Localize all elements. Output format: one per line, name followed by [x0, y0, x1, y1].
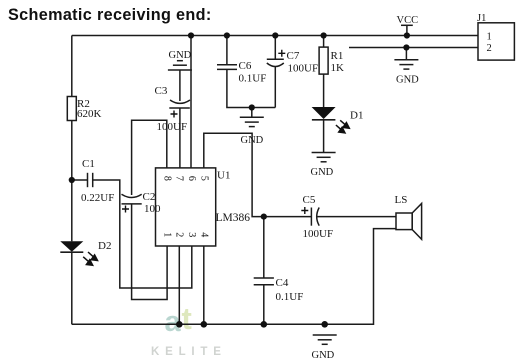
svg-text:C1: C1 — [82, 158, 95, 170]
svg-text:Schematic receiving end:: Schematic receiving end: — [8, 6, 212, 24]
svg-text:R1: R1 — [331, 50, 344, 62]
svg-text:C4: C4 — [276, 277, 289, 289]
svg-text:100: 100 — [144, 203, 161, 215]
svg-text:2: 2 — [174, 232, 185, 237]
svg-text:0.1UF: 0.1UF — [239, 73, 267, 85]
svg-text:D1: D1 — [350, 110, 363, 122]
svg-text:3: 3 — [186, 232, 197, 237]
svg-text:0.1UF: 0.1UF — [276, 291, 304, 303]
svg-text:C2: C2 — [143, 191, 156, 203]
svg-text:100UF: 100UF — [157, 121, 188, 133]
svg-text:KELITE: KELITE — [151, 346, 227, 358]
svg-text:6: 6 — [186, 176, 197, 181]
svg-text:J1: J1 — [477, 13, 486, 24]
svg-text:GND: GND — [312, 350, 335, 361]
svg-text:1: 1 — [487, 32, 492, 43]
svg-text:5: 5 — [198, 176, 209, 181]
svg-text:t: t — [182, 301, 192, 336]
svg-text:VCC: VCC — [397, 15, 419, 26]
svg-text:1K: 1K — [331, 62, 345, 74]
svg-text:620K: 620K — [77, 108, 102, 120]
svg-text:8: 8 — [162, 176, 173, 181]
svg-text:2: 2 — [487, 43, 492, 54]
svg-text:GND: GND — [169, 50, 192, 61]
svg-text:GND: GND — [311, 167, 334, 178]
svg-text:C5: C5 — [303, 194, 316, 206]
svg-text:C6: C6 — [239, 60, 252, 72]
svg-text:D2: D2 — [98, 240, 111, 252]
svg-text:0.22UF: 0.22UF — [81, 192, 114, 204]
svg-text:GND: GND — [241, 135, 264, 146]
svg-text:4: 4 — [198, 232, 209, 237]
svg-text:LS: LS — [395, 194, 408, 206]
svg-text:LM386: LM386 — [216, 212, 251, 224]
svg-text:GND: GND — [396, 75, 419, 86]
svg-text:U1: U1 — [217, 170, 230, 182]
svg-text:C7: C7 — [287, 50, 300, 62]
svg-text:C3: C3 — [155, 85, 168, 97]
svg-text:1: 1 — [162, 232, 173, 237]
svg-text:100UF: 100UF — [303, 228, 334, 240]
svg-text:100UF: 100UF — [288, 63, 319, 75]
svg-text:7: 7 — [174, 176, 185, 181]
